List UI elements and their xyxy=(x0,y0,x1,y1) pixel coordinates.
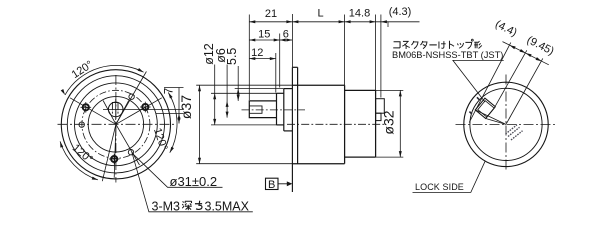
boss bottom edge xyxy=(284,130,293,132)
svg-text:3.5MAX: 3.5MAX xyxy=(205,199,250,213)
oblique dim line xyxy=(503,42,549,65)
flange top edge xyxy=(292,66,297,68)
shaft key slot xyxy=(112,103,118,111)
rear inner circle xyxy=(470,88,542,160)
svg-text:5.5: 5.5 xyxy=(225,48,239,65)
svg-text:21: 21 xyxy=(265,8,277,20)
svg-text:12: 12 xyxy=(251,47,263,59)
oblique ext line 2 xyxy=(495,50,526,106)
dim 7 extension stub bottom xyxy=(156,113,184,115)
shaft circle vertical centerline xyxy=(115,99,117,120)
wedge line from center to connector corner 1 xyxy=(475,110,506,125)
body top edge + phi37 ext xyxy=(196,84,292,86)
ext line for 4.3 xyxy=(380,15,382,98)
tiny rotated text near center xyxy=(506,125,523,140)
3-M3 leader xyxy=(132,154,253,212)
phi37 dim line xyxy=(199,85,201,164)
phi12 step front face xyxy=(276,93,278,125)
svg-text:ø37: ø37 xyxy=(178,95,194,119)
angular dim arc right xyxy=(168,93,177,153)
svg-text:(4.3): (4.3) xyxy=(389,6,412,18)
connector small dim ticks xyxy=(469,97,479,114)
radial line 60deg through hole xyxy=(116,72,146,125)
svg-text:BM06B-NSHSS-TBT (JST): BM06B-NSHSS-TBT (JST) xyxy=(392,50,503,60)
connector note underline + leader xyxy=(453,60,504,102)
angular dim arc bottom-left xyxy=(60,141,98,180)
flange outer circle xyxy=(61,70,170,179)
oblique ext line 3 (to center) xyxy=(506,58,543,123)
phi32 bottom edge + dim ext xyxy=(345,156,376,158)
rear horizontal centerline xyxy=(456,123,558,125)
open hole left xyxy=(79,122,84,127)
datum B filled arrow xyxy=(287,181,293,186)
dim 7 extension stub top xyxy=(164,87,184,89)
shaft circle phi7 xyxy=(108,102,123,117)
wedge line from center to connector corner 2 xyxy=(486,119,506,125)
svg-text:ø32: ø32 xyxy=(381,110,397,134)
rear connector lower box xyxy=(376,113,381,120)
M3 tapped hole bottom xyxy=(109,154,120,165)
dim row2 line xyxy=(249,39,292,41)
phi31 leader xyxy=(132,153,223,188)
angular dim arc top-left xyxy=(65,65,144,95)
datum B box xyxy=(266,178,279,189)
radial line 300deg through hole xyxy=(116,124,140,165)
svg-text:3-M3: 3-M3 xyxy=(152,199,181,213)
shaft bore xyxy=(249,106,262,113)
dim row3 line xyxy=(249,58,275,60)
shaft axis centerline xyxy=(242,109,306,111)
main axis centerline xyxy=(287,123,385,125)
M3 tapped hole top-right xyxy=(140,102,151,113)
svg-text:6: 6 xyxy=(283,28,289,40)
boss circle xyxy=(75,83,158,166)
M3 tapped hole top-left xyxy=(81,102,92,113)
datum B leader xyxy=(278,183,288,185)
svg-text:14.8: 14.8 xyxy=(349,8,370,20)
tangent lines center to shaft circle xyxy=(116,101,129,125)
svg-text:15: 15 xyxy=(258,28,270,40)
small tick right of 4.3 xyxy=(387,22,389,27)
svg-text:L: L xyxy=(317,8,323,20)
LOCK SIDE underline + leader xyxy=(413,161,486,192)
phi12 bottom edge + ext xyxy=(211,124,277,126)
phi32 top edge + dim ext xyxy=(345,89,376,91)
5.5 dim line xyxy=(237,66,239,101)
horizontal centerline xyxy=(58,123,175,125)
svg-text:7: 7 xyxy=(164,88,176,94)
radial line 270deg through M3 hole xyxy=(114,124,116,178)
flange back face xyxy=(297,67,299,163)
open hole upper-right xyxy=(129,94,134,99)
rim circle xyxy=(67,76,164,173)
radial line 150deg through M3 hole xyxy=(70,98,116,125)
radial line 30deg through M3 hole xyxy=(116,98,162,125)
svg-text:B: B xyxy=(268,179,275,191)
phi6 dim line xyxy=(226,65,228,118)
svg-text:ø31±0.2: ø31±0.2 xyxy=(170,174,218,189)
rear connector main box xyxy=(376,99,385,114)
shaft phi6 outline xyxy=(249,101,276,118)
phi32 rear face + dim ext xyxy=(375,15,377,91)
rear vertical centerline xyxy=(505,75,507,172)
radial line 256deg (dim boundary) xyxy=(102,124,116,181)
boss top edge + ext xyxy=(235,88,284,90)
open hole lower-right xyxy=(128,150,133,155)
inner circle xyxy=(88,97,143,152)
phi12 dim line xyxy=(214,65,216,125)
rear outer circle xyxy=(464,82,548,166)
connector rotated box xyxy=(475,98,495,118)
dim row1 line xyxy=(249,21,375,23)
oblique ext line 1 xyxy=(469,43,511,123)
flange front face (tall, with B datum extension) xyxy=(291,14,293,67)
dim 7 line xyxy=(178,88,180,124)
vertical centerline xyxy=(115,75,117,183)
bolt circle phi31 (dash-dot) xyxy=(82,90,150,158)
phi32 dim line xyxy=(399,90,401,157)
body step rear face + dim ext xyxy=(344,15,346,86)
svg-text:LOCK SIDE: LOCK SIDE xyxy=(415,182,464,192)
connector note text line1 xyxy=(393,39,482,49)
body bottom edge + phi37 ext xyxy=(196,163,292,165)
shaft centerline (offset axis) xyxy=(103,109,184,111)
boss front face xyxy=(283,89,285,131)
ext verticals for top dims xyxy=(248,15,250,101)
phi12 top edge + ext xyxy=(211,92,277,94)
